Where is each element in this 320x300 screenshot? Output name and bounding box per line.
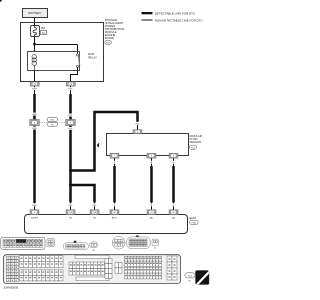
svg-text:RELAY: RELAY (88, 55, 97, 59)
svg-text:DETECTABLE LINE FOR DTC: DETECTABLE LINE FOR DTC (155, 12, 196, 16)
svg-text:NON-DETECTABLE LINE FOR DTC: NON-DETECTABLE LINE FOR DTC (155, 19, 204, 23)
svg-text:AVCC: AVCC (112, 217, 118, 220)
svg-text:3: 3 (34, 212, 35, 214)
svg-text:P/G: P/G (93, 205, 97, 207)
svg-text:119: 119 (69, 212, 72, 214)
svg-text:P/G: P/G (69, 115, 73, 117)
svg-text:P/G: P/G (69, 205, 73, 207)
svg-text:W/B: W/B (32, 128, 37, 130)
svg-text:H.S.: H.S. (201, 280, 207, 284)
svg-text:F101: F101 (191, 223, 197, 225)
svg-text:51: 51 (150, 212, 152, 214)
svg-text:BATTERY: BATTERY (28, 11, 41, 15)
svg-text:W/B: W/B (32, 205, 37, 207)
svg-text:ROOM): ROOM) (105, 36, 115, 40)
svg-text:GY: GY (92, 250, 96, 252)
svg-text:ECM: ECM (190, 216, 197, 220)
svg-text:15A: 15A (40, 26, 45, 30)
svg-text:52: 52 (172, 212, 174, 214)
svg-text:G: G (173, 205, 175, 207)
svg-text:QA-: QA- (172, 217, 176, 220)
svg-text:120: 120 (93, 212, 96, 214)
svg-text:W/B: W/B (32, 114, 37, 116)
svg-text:SENSOR: SENSOR (190, 140, 202, 144)
svg-text:P/G: P/G (69, 89, 73, 91)
svg-text:66: 66 (113, 212, 115, 214)
svg-text:P/G: P/G (136, 123, 140, 125)
svg-text:459: 459 (197, 273, 203, 277)
svg-text:G: G (173, 162, 175, 164)
svg-text:P/G: P/G (69, 128, 73, 130)
svg-text:JCWA0058GB: JCWA0058GB (3, 287, 18, 290)
svg-text:W/B: W/B (32, 89, 37, 91)
svg-text:SSOFF: SSOFF (31, 218, 39, 220)
